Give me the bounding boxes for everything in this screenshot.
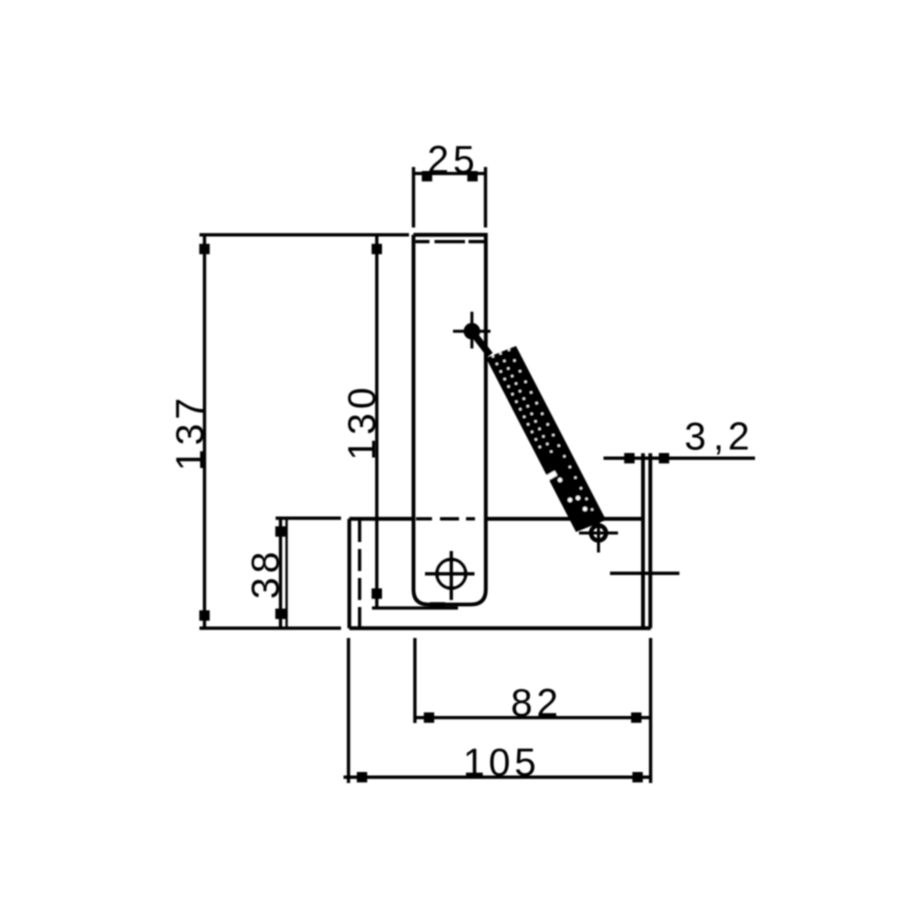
dim 25 line — [414, 172, 486, 175]
lower weld target point — [591, 526, 606, 541]
dim 82/105 right extension — [649, 638, 652, 783]
weld strip to target connector — [473, 333, 490, 355]
dim 130 line — [375, 235, 378, 608]
hole centerline horizontal — [425, 572, 475, 575]
dim 38 top extension — [276, 517, 341, 520]
hole centerline vertical — [450, 551, 453, 600]
dim 82 terminator right — [631, 712, 641, 722]
dim 3.2 terminator left — [624, 453, 634, 463]
base plate top edge hidden dashes — [416, 517, 432, 520]
upper weld target point — [464, 323, 481, 340]
dim 38 terminator bottom — [275, 609, 285, 619]
svg-text:38: 38 — [245, 548, 288, 599]
svg-text:25: 25 — [427, 139, 478, 182]
base plate hidden bend line (dashed) — [358, 520, 361, 627]
upright hidden edge (dashed) below top — [416, 240, 430, 243]
dim 137 terminator bottom — [199, 610, 209, 620]
base plate top edge left solid — [349, 517, 414, 521]
dim 25 right extension — [484, 167, 487, 228]
dim 105 left extension — [347, 638, 350, 783]
svg-text:82: 82 — [511, 682, 562, 725]
hole circle — [437, 559, 466, 588]
svg-text:3,2: 3,2 — [684, 416, 753, 459]
svg-text:105: 105 — [463, 742, 540, 785]
base plate left edge — [347, 519, 351, 628]
dim 105 terminator left — [357, 772, 367, 782]
base plate bottom edge — [349, 626, 650, 630]
dim 137 terminator top — [199, 244, 209, 254]
dim 25 left extension — [412, 167, 415, 228]
dim 130 terminator bottom — [372, 588, 382, 598]
dim 82 terminator left — [424, 712, 434, 722]
svg-text:130: 130 — [341, 383, 384, 460]
base plate right inner edge — [641, 453, 645, 628]
dim 137/130 top extension line — [200, 233, 410, 236]
dim 25 terminator right — [467, 171, 477, 181]
svg-text:137: 137 — [169, 394, 212, 471]
hole quadrant ticks — [435, 570, 438, 578]
dim 137 line — [203, 235, 206, 628]
base plate right outer edge — [648, 453, 652, 628]
base plate top edge right solid — [486, 517, 643, 521]
dim 3.2 line — [604, 457, 756, 460]
dim 130 bottom extension — [372, 606, 458, 609]
weld gusset strip — [486, 346, 606, 532]
dim 82 left extension — [413, 638, 416, 723]
strip white notch — [542, 473, 556, 481]
dim 38 line — [279, 518, 282, 628]
dim 38 second line — [285, 518, 287, 628]
dim 38 terminator top — [275, 526, 285, 536]
dim 137/38 bottom extension — [200, 627, 342, 630]
upright plate outline — [414, 235, 486, 605]
dim 105 terminator right — [632, 772, 642, 782]
upright bottom edge thick segment — [430, 602, 445, 608]
dim 25 terminator left — [422, 171, 432, 181]
dim 130 terminator top — [372, 244, 382, 254]
dim 82 line — [415, 716, 651, 719]
dim 105 line — [344, 776, 653, 779]
flange centerline right — [610, 572, 679, 575]
dim 3.2 terminator right — [659, 453, 669, 463]
